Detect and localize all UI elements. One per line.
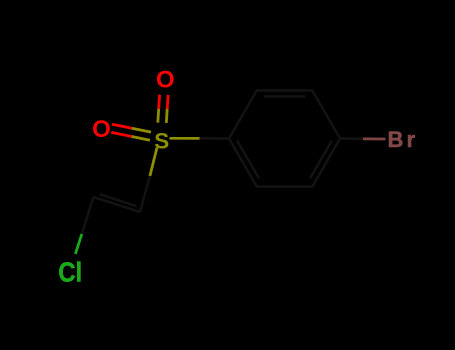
- bond S-C7 (carbon half, dark): [140, 176, 150, 212]
- bond C7=C8 main line (dark): [94, 197, 141, 212]
- double bond S=O2 line b (oxygen half, red): [111, 132, 131, 136]
- double bond S=O1 line b (sulfur half, olive): [165, 109, 169, 123]
- svg-text:Cl: Cl: [58, 256, 82, 287]
- bond C7=C8 second line (dark): [100, 194, 137, 206]
- benzene ring C1-C6: [229, 90, 340, 186]
- ring double bond C4=C5 (right inner line): [310, 141, 332, 179]
- double bond S=O1 line a (oxygen half, red): [157, 95, 161, 109]
- svg-text:O: O: [92, 116, 111, 143]
- bond C8-Cl (chlorine half, green): [75, 234, 81, 254]
- bond C4-Br (bromine half, maroon): [363, 137, 386, 140]
- bond S-C7 (sulfur half, olive): [150, 148, 157, 177]
- bond C8-Cl (carbon half, dark): [82, 197, 94, 234]
- double bond S=O2 line b (sulfur half, olive): [132, 137, 150, 141]
- double bond S=O1 line b (oxygen half, red): [166, 95, 170, 109]
- double bond S=O2 line a (sulfur half, olive): [132, 128, 151, 132]
- svg-text:S: S: [154, 128, 169, 153]
- ring double bond C2=C3 (top inner line): [264, 95, 306, 98]
- svg-text:O: O: [156, 67, 175, 94]
- double bond S=O2 line a (oxygen half, red): [112, 124, 132, 128]
- bond S-C1 (sulfur half, olive): [170, 137, 200, 140]
- double bond S=O1 line a (sulfur half, olive): [156, 109, 160, 123]
- bond C4-Br (carbon half, dark): [340, 137, 363, 140]
- svg-text:Br: Br: [388, 127, 416, 152]
- bond S-C1 (carbon half, dark): [200, 137, 229, 140]
- ring double bond C6=C1 (left inner line): [237, 141, 259, 179]
